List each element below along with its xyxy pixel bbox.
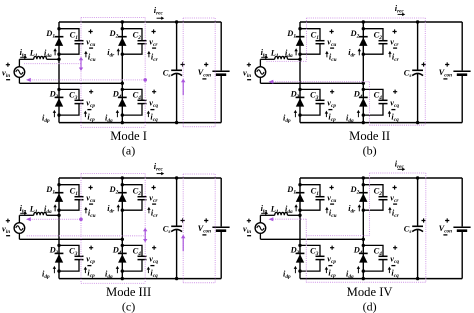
vin label (c) [2, 219, 10, 236]
svg-text:Mode I: Mode I [110, 129, 147, 143]
diode D2 (b) [359, 37, 368, 46]
D1 label (c) [45, 185, 55, 196]
C1 label (c) [70, 186, 79, 197]
capacitor C2 with bracket wires (c) [121, 183, 147, 212]
i_dq label and arrow (a) [105, 110, 119, 124]
rail junction dots (c) [121, 176, 179, 280]
lower dashed current line, mode III (c) [27, 235, 146, 237]
conduction loop dashed path, mode II (b) [267, 18, 426, 125]
D3 label (d) [290, 246, 300, 257]
D4 label (c) [112, 246, 122, 257]
node B (a) [121, 82, 124, 85]
C3 label (b) [310, 91, 319, 102]
capacitor Cs (d) [412, 226, 423, 231]
D2 label (d) [350, 185, 360, 196]
battery Vcon (a) [212, 71, 229, 74]
svg-text:Mode III: Mode III [106, 285, 151, 299]
dashed loop around Cs, mode III (c) [183, 174, 215, 283]
rail junction dots (d) [362, 176, 420, 280]
i_dq label and arrow (d) [346, 266, 360, 280]
i_in label and arrow (d) [261, 204, 269, 215]
diode D4 (b) [359, 97, 368, 106]
node B (d) [362, 238, 365, 241]
node A (b) [298, 58, 301, 61]
wire vin bottom to node B (b) [260, 77, 363, 83]
i_dp label and arrow (d) [283, 266, 297, 280]
Cs charging arrow, mode III (c) [181, 235, 185, 251]
i_dp label and arrow (a) [42, 110, 56, 124]
Mode III caption (c) [106, 285, 151, 299]
diode D1 (c) [55, 193, 64, 202]
diode D2 (c) [118, 193, 127, 202]
D2 label (b) [350, 29, 360, 40]
i_cp label and arrow (d) [325, 267, 336, 279]
vin label (a) [2, 63, 10, 80]
lower dashed current line with arrow to vin, mode I (a) [26, 78, 145, 82]
D3 label (c) [49, 246, 59, 257]
capacitor C2 with bracket wires (d) [362, 183, 388, 212]
diode D1 (d) [296, 193, 305, 202]
inductor L1 (c) [34, 212, 59, 215]
v_cr label (b) [390, 29, 399, 48]
conduction loop dashed path, mode IV (d) [273, 173, 426, 282]
D3 label (b) [290, 90, 300, 101]
C1 label (a) [70, 30, 79, 41]
AC source vin (a) [14, 67, 25, 78]
diode D3 (a) [55, 97, 64, 106]
capacitor Cs (c) [171, 226, 182, 231]
D2 label (a) [109, 29, 119, 40]
C4 label (d) [374, 247, 383, 258]
capacitor C3 with bracket wires (b) [298, 88, 324, 117]
wire vin bottom to node B (d) [260, 233, 363, 239]
panel (d): load branch wire (Vcon) [461, 178, 463, 279]
i_cu label and arrow (d) [325, 207, 336, 219]
capacitor Cs (a) [171, 70, 182, 75]
i_dq label and arrow (c) [105, 266, 119, 280]
L1 label (a) [29, 49, 38, 60]
capacitor C1 with bracket wires (c) [57, 183, 83, 212]
capacitor C3 with bracket wires (d) [298, 244, 324, 273]
D4 label (d) [353, 246, 363, 257]
capacitor C2 with bracket wires (b) [362, 27, 388, 56]
battery Vcon (d) [453, 227, 470, 230]
diode D4 (c) [118, 253, 127, 262]
Cs label (c) [163, 218, 185, 235]
panel (d): capacitor Cs branch wire [417, 178, 419, 279]
panel (a): top rail wire [59, 21, 221, 23]
panel (b): capacitor Cs branch wire [417, 22, 419, 123]
upper dashed current line with arrow to vin, mode III (c) [26, 217, 81, 221]
v_cq label (a) [149, 90, 158, 110]
panel (d): bottom rail wire [300, 278, 462, 280]
i_cr label and arrow (a) [147, 51, 158, 63]
i_rec label and arrow (c) [154, 162, 164, 175]
panel (a): load branch wire (Vcon) [220, 22, 222, 123]
junction dot on loop, mode III (c) [79, 218, 83, 222]
C4 label (c) [133, 247, 142, 258]
v_cq label (b) [390, 90, 399, 110]
oscillating current double arrow, mode III (c) [143, 228, 147, 243]
v_cu label (b) [327, 29, 336, 48]
i_da label and arrow (d) [285, 204, 298, 215]
i_dp label and arrow (b) [283, 110, 297, 124]
v_cp label (d) [327, 246, 336, 266]
diode D4 (d) [359, 253, 368, 262]
i_dr label and arrow (c) [107, 204, 120, 215]
capacitor C3 with bracket wires (c) [57, 244, 83, 273]
inductor L1 (b) [275, 56, 300, 59]
v_cu label (a) [86, 29, 95, 48]
D2 label (c) [109, 185, 119, 196]
diode D3 (b) [296, 97, 305, 106]
diode D1 (b) [296, 37, 305, 46]
panel (b): top rail wire [300, 21, 462, 23]
C2 label (b) [374, 30, 383, 41]
capacitor C1 with bracket wires (d) [298, 183, 324, 212]
battery Vcon (c) [212, 227, 229, 230]
Mode II caption (b) [349, 129, 390, 143]
Cs charging arrow, mode I (a) [181, 79, 185, 95]
i_da label and arrow (a) [44, 48, 57, 59]
svg-text:Mode II: Mode II [349, 129, 390, 143]
battery Vcon (b) [453, 71, 470, 74]
capacitor C4 with bracket wires (a) [121, 88, 147, 117]
panel (a): capacitor Cs branch wire [176, 22, 178, 123]
panel (c): top rail wire [59, 177, 221, 179]
wire vin top to L1 (d) [260, 215, 274, 222]
D4 label (b) [353, 90, 363, 101]
i_cu label and arrow (a) [84, 51, 95, 63]
panel (b): right leg wire (D2/D4 branch) [362, 22, 364, 123]
wire vin top to L1 (c) [19, 215, 33, 222]
(b) caption (b) [363, 144, 377, 158]
i_rec label and arrow (a) [154, 6, 164, 20]
node B (b) [362, 82, 365, 85]
Cs label (d) [404, 218, 426, 235]
i_dp label and arrow (c) [42, 266, 56, 280]
i_cq label and arrow (d) [388, 267, 399, 279]
v_cu label (c) [86, 185, 95, 204]
Vcon label (b) [439, 62, 453, 79]
node A (d) [298, 214, 301, 217]
C3 label (d) [310, 247, 319, 258]
v_cu label (d) [327, 185, 336, 204]
panel (a): right leg wire (D2/D4 branch) [121, 22, 123, 123]
i_cp label and arrow (b) [325, 111, 336, 123]
Vcon label (d) [439, 218, 453, 235]
(a) caption (a) [122, 144, 135, 158]
D1 label (d) [286, 185, 296, 196]
Vcon label (c) [198, 218, 212, 235]
diode D2 (a) [118, 37, 127, 46]
diode D4 (a) [118, 97, 127, 106]
wire vin bottom to node B (c) [19, 233, 122, 239]
C3 label (a) [69, 91, 78, 102]
capacitor C2 with bracket wires (a) [121, 27, 147, 56]
wire vin bottom to node B (a) [19, 77, 122, 83]
capacitor C1 with bracket wires (a) [57, 27, 83, 56]
capacitor C4 with bracket wires (b) [362, 88, 388, 117]
diode D3 (d) [296, 253, 305, 262]
svg-text:(c): (c) [122, 300, 135, 313]
AC source vin (d) [255, 223, 266, 234]
D1 label (b) [286, 29, 296, 40]
panel (d): right leg wire (D2/D4 branch) [362, 178, 364, 279]
i_dr label and arrow (a) [107, 48, 120, 59]
v_cp label (c) [86, 246, 95, 266]
i_in label and arrow (b) [261, 48, 269, 59]
inductor L1 (d) [275, 212, 300, 215]
i_in label and arrow (c) [20, 204, 28, 215]
(c) caption (c) [122, 300, 135, 313]
C1 label (d) [311, 186, 320, 197]
i_cu label and arrow (b) [325, 51, 336, 63]
D1 label (a) [45, 29, 55, 40]
capacitor C4 with bracket wires (d) [362, 244, 388, 273]
svg-text:(d): (d) [363, 300, 377, 313]
upper dashed current line, mode I (a) [24, 63, 81, 65]
vin label (b) [243, 63, 251, 80]
svg-text:Mode IV: Mode IV [347, 285, 393, 299]
svg-text:(a): (a) [122, 144, 135, 158]
i_cq label and arrow (c) [147, 267, 158, 279]
i_cp label and arrow (a) [84, 111, 95, 123]
i_dr label and arrow (b) [348, 48, 361, 59]
capacitor C1 with bracket wires (b) [298, 27, 324, 56]
i_cq label and arrow (b) [388, 111, 399, 123]
panel (d): left leg wire (D1/D3 branch) [299, 178, 301, 279]
Vcon label (a) [198, 62, 212, 79]
diode D1 (a) [55, 37, 64, 46]
panel (d): top rail wire [300, 177, 462, 179]
C2 label (d) [374, 186, 383, 197]
i_cr label and arrow (d) [388, 207, 399, 219]
Mode IV caption (d) [347, 285, 393, 299]
return arrow to vin, mode IV (d) [269, 217, 274, 221]
panel (c): capacitor Cs branch wire [176, 178, 178, 279]
panel (c): left leg wire (D1/D3 branch) [58, 178, 60, 279]
v_cq label (c) [149, 246, 158, 266]
L1 label (b) [270, 49, 279, 60]
L1 label (d) [270, 205, 279, 216]
i_cr label and arrow (b) [388, 51, 399, 63]
node B (c) [121, 238, 124, 241]
i_cp label and arrow (c) [84, 267, 95, 279]
current-loop dashed rectangle around C legs, mode I (a) [81, 18, 145, 128]
i_dq label and arrow (b) [346, 110, 360, 124]
i_cu label and arrow (c) [84, 207, 95, 219]
panel (a): left leg wire (D1/D3 branch) [58, 22, 60, 123]
v_cr label (c) [149, 185, 158, 204]
C2 label (a) [133, 30, 142, 41]
v_cr label (a) [149, 29, 158, 48]
rail junction dots (a) [121, 20, 179, 124]
Cs label (b) [404, 62, 426, 79]
AC source vin (c) [14, 223, 25, 234]
svg-text:(b): (b) [363, 144, 377, 158]
return arrow to vin, mode II (b) [269, 80, 274, 84]
C4 label (a) [133, 91, 142, 102]
D4 label (a) [112, 90, 122, 101]
diode D2 (d) [359, 193, 368, 202]
v_cq label (d) [390, 246, 399, 266]
v_cp label (a) [86, 90, 95, 110]
vin label (d) [243, 219, 251, 236]
inductor L1 (a) [34, 56, 59, 59]
i_dr label and arrow (d) [348, 204, 361, 215]
panel (b): bottom rail wire [300, 122, 462, 124]
AC source vin (b) [255, 67, 266, 78]
L1 label (c) [29, 205, 38, 216]
oscillating current double arrow, mode I (a) [79, 57, 83, 71]
panel (c): bottom rail wire [59, 278, 221, 280]
Mode I caption (a) [110, 129, 147, 143]
dashed loop around Cs, mode I (a) [183, 18, 215, 127]
i_da label and arrow (b) [285, 48, 298, 59]
node A (c) [57, 214, 60, 217]
junction dot on loop, mode I (a) [143, 78, 147, 82]
Cs label (a) [163, 62, 185, 79]
i_rec label and arrow (d) [395, 159, 405, 171]
node A (a) [57, 58, 60, 61]
panel (b): left leg wire (D1/D3 branch) [299, 22, 301, 123]
i_cr label and arrow (c) [147, 207, 158, 219]
i_in label and arrow (a) [20, 48, 28, 59]
v_cp label (b) [327, 90, 336, 110]
capacitor C4 with bracket wires (c) [121, 244, 147, 273]
C2 label (c) [133, 186, 142, 197]
capacitor Cs (b) [412, 70, 423, 75]
capacitor C3 with bracket wires (a) [57, 88, 83, 117]
C3 label (c) [69, 247, 78, 258]
i_da label and arrow (c) [44, 204, 57, 215]
(d) caption (d) [363, 300, 377, 313]
current-loop dashed rectangle around C legs, mode III (c) [81, 174, 145, 284]
diode D3 (c) [55, 253, 64, 262]
panel (b): load branch wire (Vcon) [461, 22, 463, 123]
wire vin top to L1 (a) [19, 59, 33, 66]
v_cr label (d) [390, 185, 399, 204]
C4 label (b) [374, 91, 383, 102]
rail junction dots (b) [362, 20, 420, 124]
C1 label (b) [311, 30, 320, 41]
panel (a): bottom rail wire [59, 122, 221, 124]
D3 label (a) [49, 90, 59, 101]
panel (c): right leg wire (D2/D4 branch) [121, 178, 123, 279]
wire vin top to L1 (b) [260, 59, 274, 66]
i_rec label and arrow (b) [395, 4, 405, 16]
i_cq label and arrow (a) [147, 111, 158, 123]
panel (c): load branch wire (Vcon) [220, 178, 222, 279]
